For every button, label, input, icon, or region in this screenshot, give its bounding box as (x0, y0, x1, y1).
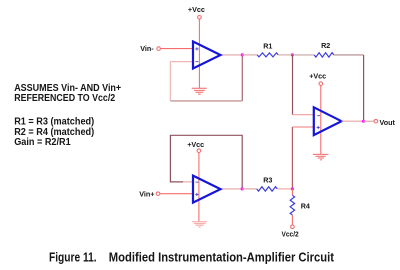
terminal +Vcc U1 (198, 15, 202, 19)
wire U3 noninverting vertical to junction D (291, 127, 293, 189)
svg-text:+Vcc: +Vcc (188, 5, 205, 14)
wire A2 to R3 (242, 188, 257, 190)
wire feedback U1 left vertical (169, 62, 171, 101)
svg-text:Modified Instrumentation-Ampli: Modified Instrumentation-Amplifier Circu… (109, 250, 335, 264)
terminal +Vcc U2 (197, 149, 201, 153)
wire output U2 (221, 188, 243, 190)
wire feedback U2 (170, 135, 242, 188)
resistor R3 (257, 187, 278, 191)
wire feedback U1 bottom horizontal (170, 100, 242, 102)
svg-text:R2: R2 (321, 41, 330, 50)
terminal +Vcc U3 (319, 82, 323, 86)
wire D to R4 (291, 189, 293, 195)
wire C to Vout terminal (364, 120, 375, 122)
ground U2 (192, 222, 207, 227)
wire U3 noninverting horizontal (292, 126, 313, 128)
wire feedback U1 stub to inverting input (170, 61, 193, 63)
wire output U3 (342, 120, 364, 122)
ground U1 (192, 88, 207, 94)
svg-text:R1 = R3 (matched): R1 = R3 (matched) (14, 116, 94, 127)
svg-text:R1: R1 (263, 41, 272, 50)
svg-text:REFERENCED TO Vcc/2: REFERENCED TO Vcc/2 (14, 93, 115, 104)
junction C (362, 120, 365, 123)
junction A1 (241, 53, 244, 56)
wire R2 to right corner (334, 54, 364, 56)
wire R3 to junction D (277, 188, 292, 190)
wire +Vcc U1 drop (198, 19, 200, 88)
wire right vertical feedback to output node (363, 55, 365, 121)
svg-text:ASSUMES Vin- AND Vin+: ASSUMES Vin- AND Vin+ (14, 83, 121, 94)
wire junction B down (292, 55, 294, 115)
terminal Vout (374, 119, 378, 123)
op-amp U3 (314, 107, 342, 135)
terminal Vcc/2 (291, 225, 295, 229)
terminal Vin- (157, 47, 161, 51)
terminal Vin+ (156, 192, 160, 196)
junction A2 (241, 187, 244, 190)
svg-text:R2 = R4 (matched): R2 = R4 (matched) (14, 127, 94, 138)
svg-text:Figure 11.: Figure 11. (49, 250, 97, 264)
svg-text:Vcc/2: Vcc/2 (282, 230, 299, 239)
svg-text:Vout: Vout (380, 118, 396, 127)
junction B (291, 53, 294, 56)
wire feedback U1 right vertical (241, 55, 243, 101)
wire Vin+ lead (160, 193, 193, 195)
svg-text:+Vcc: +Vcc (187, 140, 204, 149)
op-amp U1 (193, 42, 221, 69)
svg-text:Vin-: Vin- (140, 44, 154, 53)
ground U3 (313, 154, 329, 159)
wire +Vcc U2 drop (198, 153, 200, 222)
svg-text:Vin+: Vin+ (139, 189, 154, 198)
wire A1 to R1 (242, 54, 257, 56)
svg-text:R3: R3 (263, 175, 272, 184)
op-amp U2 (193, 176, 221, 203)
wire to U3 inverting input (293, 114, 314, 116)
svg-text:+Vcc: +Vcc (309, 72, 326, 81)
svg-text:Gain = R2/R1: Gain = R2/R1 (14, 137, 71, 148)
junction D (291, 187, 294, 190)
wire R1 to junction B (278, 54, 292, 56)
wire +Vcc U3 drop (320, 85, 322, 154)
wire B to R2 (293, 54, 315, 56)
wire R4 to Vcc/2 terminal (291, 215, 293, 225)
assumptions note text (14, 83, 121, 148)
wire Vin- lead (160, 48, 193, 50)
wire feedback U2 stub to inverting input (183, 181, 193, 183)
svg-text:R4: R4 (301, 201, 310, 210)
resistor R1 (257, 53, 278, 57)
wire output U1 (221, 54, 243, 56)
resistor R2 (314, 53, 334, 57)
resistor R4 (290, 195, 294, 215)
